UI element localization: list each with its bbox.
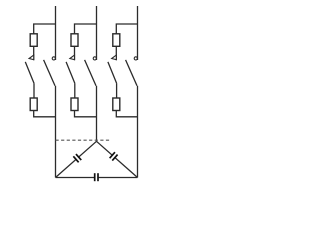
- switch S2 fixed contact (circle, main line 1): [52, 57, 55, 60]
- wire delta right side (node B to node C diagonal): [97, 141, 138, 177]
- wire resistor R3 to switch S3 contact: [74, 46, 76, 60]
- wire phase C feeder (vertical main line 3, upper): [137, 6, 139, 60]
- wire branch 2 bottom tie (rejoin main line 2): [75, 111, 97, 117]
- resistor R2 (lower resistor, branch 1): [30, 98, 37, 111]
- wire phase A feeder (vertical main line 1, upper): [55, 6, 57, 60]
- wire branch 3 top tie (horizontal to resistor column): [116, 24, 137, 34]
- wire switch S5 to resistor R6: [116, 83, 118, 98]
- wire resistor R5 to switch S5 contact: [115, 46, 117, 60]
- switch S5 fixed contact (arrow): [112, 55, 117, 60]
- switch S4 fixed contact (circle, main line 2): [93, 57, 96, 60]
- wire branch 1 bottom tie (rejoin main line 1): [34, 111, 56, 117]
- resistor R1 (upper resistor, branch 1): [30, 34, 37, 47]
- resistor R4 (lower resistor, branch 2): [71, 98, 78, 111]
- resistor R3 (upper resistor, branch 2): [71, 34, 78, 47]
- switch S1 fixed contact (arrow): [29, 55, 34, 60]
- wire phase B feeder (vertical main line 2, upper): [96, 6, 98, 60]
- wire switch S1 to resistor R2: [33, 83, 35, 98]
- resistor R6 (lower resistor, branch 3): [113, 98, 120, 111]
- switch S6 fixed contact (circle, main line 3): [134, 57, 137, 60]
- resistor R5 (upper resistor, branch 3): [113, 34, 120, 47]
- switch S3 blade (open): [66, 62, 75, 83]
- capacitor C1 (on delta left diagonal): [73, 154, 81, 162]
- capacitor C3 (on delta bottom side): [95, 173, 98, 181]
- wire main line 3 lower (down to delta corner): [137, 86, 139, 178]
- dashed gang-operation linkage line: [56, 139, 111, 141]
- switch S6 blade (open, main line 3): [126, 60, 137, 86]
- wire delta bottom side (node C to node A): [56, 177, 95, 179]
- wire resistor R1 to switch S1 contact: [33, 46, 35, 60]
- switch S1 blade (open): [25, 62, 34, 83]
- wire delta left side (node A to node B diagonal): [56, 141, 97, 177]
- switch S2 blade (open, main line 1): [44, 60, 55, 86]
- switch S5 blade (open): [108, 62, 117, 83]
- wire branch 2 top tie (horizontal to resistor column): [75, 24, 97, 34]
- switch S4 blade (open, main line 2): [85, 60, 96, 86]
- wire switch S3 to resistor R4: [74, 83, 76, 98]
- wire main line 1 lower (down to delta corner): [55, 86, 57, 178]
- switch S3 fixed contact (arrow): [70, 55, 75, 60]
- capacitor C2 (on delta right diagonal): [110, 152, 118, 160]
- wire branch 3 bottom tie (rejoin main line 3): [116, 111, 137, 117]
- wire branch 1 top tie (horizontal to resistor column): [34, 24, 56, 34]
- wire main line 2 lower (down to delta apex): [96, 86, 98, 142]
